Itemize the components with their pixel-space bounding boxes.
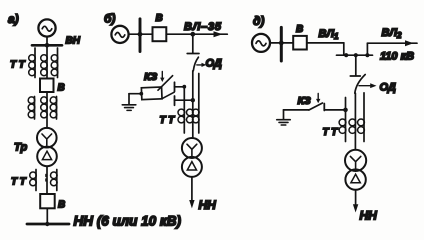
- svg-text:ТТ: ТТ: [11, 177, 28, 188]
- svg-text:110 кВ: 110 кВ: [380, 51, 414, 63]
- svg-text:НН (6 или 10 кВ): НН (6 или 10 кВ): [74, 213, 182, 228]
- svg-text:ТТ: ТТ: [10, 60, 27, 71]
- svg-text:НН: НН: [199, 198, 217, 212]
- svg-text:ВН: ВН: [66, 36, 81, 47]
- svg-text:ОД: ОД: [380, 82, 396, 94]
- svg-text:д): д): [253, 14, 264, 28]
- svg-text:ОД: ОД: [206, 58, 222, 70]
- svg-text:ВЛ2: ВЛ2: [382, 27, 403, 40]
- svg-text:ТТ: ТТ: [160, 115, 177, 126]
- svg-text:В: В: [58, 200, 65, 211]
- svg-text:Тр: Тр: [14, 142, 27, 154]
- svg-text:КЗ: КЗ: [298, 95, 311, 107]
- svg-text:ТТ: ТТ: [323, 127, 340, 138]
- svg-text:ВЛ1: ВЛ1: [319, 28, 340, 41]
- svg-text:б): б): [104, 12, 115, 26]
- svg-text:В: В: [58, 83, 65, 94]
- svg-text:В: В: [296, 24, 303, 35]
- svg-text:КЗ: КЗ: [144, 71, 157, 83]
- svg-text:В: В: [156, 13, 163, 24]
- svg-text:ВЛ–35: ВЛ–35: [184, 21, 222, 33]
- svg-text:а): а): [8, 12, 19, 26]
- svg-text:НН: НН: [360, 209, 378, 223]
